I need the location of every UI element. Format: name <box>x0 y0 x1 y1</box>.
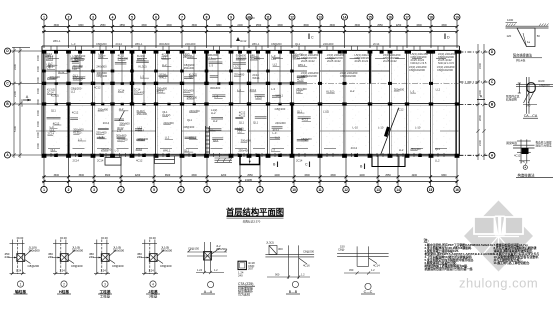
svg-text:±0.00: ±0.00 <box>60 236 67 240</box>
vertical grid walls <box>44 51 459 156</box>
svg-text:LL2: LL2 <box>162 55 167 59</box>
svg-text:250x400: 250x400 <box>183 55 194 59</box>
svg-text:C8@200: C8@200 <box>184 125 195 129</box>
svg-text:C8@200: C8@200 <box>275 107 286 111</box>
svg-text:12: 12 <box>344 188 348 192</box>
C grid dash-dot line right part <box>307 83 478 85</box>
svg-text:240: 240 <box>5 255 10 259</box>
svg-text:1.2: 1.2 <box>301 273 305 277</box>
svg-text:5: 5 <box>153 188 155 192</box>
porch 2 below bottom wall (entrance U) <box>240 156 260 165</box>
svg-text:4C12: 4C12 <box>94 85 101 89</box>
svg-text:C8@200: C8@200 <box>301 137 312 141</box>
svg-text:C8@200: C8@200 <box>71 264 83 268</box>
svg-text:QL1: QL1 <box>295 42 301 46</box>
svg-text:3300: 3300 <box>478 62 482 69</box>
svg-text:1: 1 <box>43 188 45 192</box>
svg-text:1500: 1500 <box>36 121 40 127</box>
partitions C-B band <box>56 84 280 105</box>
svg-text:250x400: 250x400 <box>96 131 107 135</box>
svg-text:2250: 2250 <box>396 24 402 27</box>
interior beam segments (density) <box>47 61 311 141</box>
svg-text:300x600: 300x600 <box>119 121 130 125</box>
svg-text:1.24: 1.24 <box>16 269 22 273</box>
svg-text:KL3(2): KL3(2) <box>326 89 334 93</box>
svg-text:zhulong.com: zhulong.com <box>459 276 538 291</box>
svg-text:L1(2): L1(2) <box>255 95 261 99</box>
svg-text:4200: 4200 <box>221 174 227 177</box>
svg-text:250x400: 250x400 <box>410 147 421 151</box>
svg-text:L1(2): L1(2) <box>234 65 240 69</box>
bottom grid bubbles <box>41 155 460 193</box>
B row beam line <box>42 104 456 106</box>
svg-text:3300: 3300 <box>166 24 172 27</box>
svg-text:C8@100/200: C8@100/200 <box>340 74 356 78</box>
section flag C bottom <box>305 162 310 168</box>
svg-text:工柱基: 工柱基 <box>99 289 110 294</box>
svg-text:14: 14 <box>343 15 347 19</box>
svg-text:L1(2): L1(2) <box>323 110 329 114</box>
svg-text:CTA (Z25): CTA (Z25) <box>238 282 253 286</box>
svg-text:L-3: L-3 <box>410 89 414 93</box>
svg-text:WKL1: WKL1 <box>252 42 260 46</box>
svg-text:共14处: 共14处 <box>516 58 525 63</box>
svg-text:240x300: 240x300 <box>96 64 107 68</box>
svg-text:2550: 2550 <box>120 24 126 27</box>
svg-text:4C20: 4C20 <box>538 79 545 83</box>
svg-text:15: 15 <box>429 188 433 192</box>
porch 1 below bottom wall <box>155 156 175 164</box>
svg-text:3600: 3600 <box>105 174 111 177</box>
svg-text:2C14: 2C14 <box>116 42 123 46</box>
lintel segments below top wall <box>49 58 446 60</box>
svg-text:250x400: 250x400 <box>238 149 249 153</box>
svg-text:3300: 3300 <box>441 24 447 27</box>
svg-text:QL1: QL1 <box>435 147 441 151</box>
plan outer walls <box>42 46 459 156</box>
svg-text:4C12: 4C12 <box>240 39 247 43</box>
svg-text:3: 3 <box>93 188 95 192</box>
svg-text:C8@100/200: C8@100/200 <box>301 74 317 78</box>
svg-text:4: 4 <box>152 282 154 286</box>
right grid bubbles <box>459 49 495 158</box>
svg-text:240x300: 240x300 <box>163 121 174 125</box>
svg-text:300x600: 300x600 <box>73 76 84 80</box>
svg-text:3300: 3300 <box>416 24 422 27</box>
svg-text:1500: 1500 <box>36 77 40 83</box>
svg-text:2: 2 <box>68 15 70 19</box>
entrance steps hatched block <box>215 158 233 162</box>
svg-text:L-3: L-3 <box>140 74 144 78</box>
interior beam line y71 <box>45 70 390 72</box>
svg-text:250x400: 250x400 <box>137 112 148 116</box>
svg-text:250x400: 250x400 <box>134 91 145 95</box>
svg-text:2550: 2550 <box>385 174 391 177</box>
stair flight 3 short <box>119 111 125 122</box>
svg-text:150: 150 <box>340 245 345 249</box>
svg-text:1a: 1a <box>527 40 531 44</box>
svg-text:2C14: 2C14 <box>48 132 55 136</box>
svg-text:H柱基: H柱基 <box>59 289 69 294</box>
svg-text:5: 5 <box>131 15 133 19</box>
svg-text:L-3: L-3 <box>72 42 76 46</box>
svg-text:C8@200: C8@200 <box>96 42 107 46</box>
svg-text:3300: 3300 <box>191 174 197 177</box>
svg-text:QL1: QL1 <box>253 121 259 125</box>
svg-text:±0.00: ±0.00 <box>17 236 24 240</box>
svg-text:300x600: 300x600 <box>210 86 221 90</box>
svg-text:4C12: 4C12 <box>297 78 304 82</box>
svg-text:10: 10 <box>292 188 296 192</box>
svg-text:C8@100: C8@100 <box>539 83 550 87</box>
svg-text:LL2: LL2 <box>119 107 124 111</box>
section CA-CA detail <box>506 77 553 118</box>
svg-text:LL2: LL2 <box>211 111 216 115</box>
svg-text:L-3: L-3 <box>99 135 103 139</box>
svg-text:WKL1: WKL1 <box>163 148 171 152</box>
svg-text:14: 14 <box>396 188 400 192</box>
svg-text:1500: 1500 <box>36 143 40 149</box>
svg-text:B—B: B—B <box>289 290 298 294</box>
svg-text:4C16: 4C16 <box>303 264 310 268</box>
svg-text:11: 11 <box>266 15 270 19</box>
fine texture speckle over plan <box>45 51 456 156</box>
svg-text:LL2: LL2 <box>399 148 404 152</box>
svg-text:L-3: L-3 <box>209 127 213 131</box>
svg-text:WKL1: WKL1 <box>276 94 284 98</box>
svg-text:3300: 3300 <box>355 24 361 27</box>
svg-text:KL3(2): KL3(2) <box>51 94 59 98</box>
svg-text:50: 50 <box>537 34 541 38</box>
svg-text:±0.00: ±0.00 <box>101 236 108 240</box>
footing detail B-B <box>265 241 314 295</box>
svg-text:N4C12 L=3.5: N4C12 L=3.5 <box>438 61 454 65</box>
svg-text:1: 1 <box>20 282 22 286</box>
left dimension lines <box>12 47 30 158</box>
section flag D top <box>445 34 450 40</box>
column joint detail right <box>506 139 553 177</box>
svg-text:3300: 3300 <box>54 24 60 27</box>
bottom dimension text <box>54 174 447 182</box>
svg-text:4200: 4200 <box>412 174 418 177</box>
svg-text:240: 240 <box>89 255 94 259</box>
svg-text:1: 1 <box>43 15 45 19</box>
svg-text:C8@200: C8@200 <box>236 56 247 60</box>
svg-text:LL2: LL2 <box>72 67 77 71</box>
beam section detail top right <box>506 18 549 63</box>
svg-text:QL1: QL1 <box>189 75 195 79</box>
svg-text:2400: 2400 <box>237 24 243 27</box>
left grid bubbles <box>5 48 43 158</box>
svg-text:JL3(2): JL3(2) <box>266 241 274 245</box>
watermark zhulong logo <box>464 201 533 272</box>
mid-bay joint blobs <box>55 82 282 105</box>
svg-text:240x300: 240x300 <box>323 42 334 46</box>
svg-text:16: 16 <box>455 188 459 192</box>
svg-text:C8@200: C8@200 <box>96 74 107 78</box>
svg-text:5100: 5100 <box>13 125 17 132</box>
svg-text:15: 15 <box>368 15 372 19</box>
svg-text:结施说明: 结施说明 <box>506 97 517 101</box>
svg-text:3: 3 <box>104 282 106 286</box>
svg-text:结构标高3.570: 结构标高3.570 <box>243 219 261 223</box>
svg-text:4200: 4200 <box>359 174 365 177</box>
svg-text:LL2: LL2 <box>165 136 170 140</box>
svg-text:LL2: LL2 <box>435 159 440 163</box>
footing detail 3 <box>89 236 124 299</box>
svg-text:QL1: QL1 <box>50 148 56 152</box>
svg-text:300x600: 300x600 <box>49 75 60 79</box>
beam labels inside plan <box>46 52 456 153</box>
stair ladder 1 <box>206 126 210 154</box>
svg-text:WKL1: WKL1 <box>53 39 61 43</box>
svg-text:±0.00: ±0.00 <box>149 236 156 240</box>
svg-text:240: 240 <box>238 274 243 278</box>
svg-text:抗震设防烈度为7度设计分组为第一组.: 抗震设防烈度为7度设计分组为第一组. <box>424 266 474 271</box>
svg-text:240: 240 <box>48 255 53 259</box>
svg-text:1.24: 1.24 <box>197 268 203 272</box>
svg-text:2C14: 2C14 <box>73 159 80 163</box>
svg-text:300x600: 300x600 <box>250 56 261 60</box>
svg-text:C8@150: C8@150 <box>188 247 200 251</box>
svg-text:L-3: L-3 <box>273 131 277 135</box>
svg-text:18: 18 <box>429 15 433 19</box>
svg-text:1500: 1500 <box>36 88 40 94</box>
svg-text:9: 9 <box>230 15 232 19</box>
svg-text:250x500: 250x500 <box>216 247 227 251</box>
left dimension text (rotated) <box>13 63 24 132</box>
svg-text:C: C <box>311 36 314 40</box>
section arrow A right <box>477 95 485 100</box>
svg-text:WKL1: WKL1 <box>252 76 260 80</box>
svg-text:2C14: 2C14 <box>103 121 110 125</box>
svg-text:WKL1: WKL1 <box>298 63 306 67</box>
svg-text:WKL1: WKL1 <box>293 55 301 59</box>
svg-text:A—A: A—A <box>204 290 213 294</box>
stair diagonal 2 <box>381 108 399 155</box>
svg-text:9: 9 <box>259 188 261 192</box>
svg-text:QL1: QL1 <box>184 148 190 152</box>
columns on top wall <box>42 50 462 54</box>
columns on bottom wall <box>42 154 460 158</box>
svg-text:1.24: 1.24 <box>60 269 66 273</box>
section flag B bottom <box>273 162 278 168</box>
top grid bubbles row <box>41 14 460 48</box>
svg-text:4C12: 4C12 <box>250 88 257 92</box>
svg-text:13: 13 <box>318 15 322 19</box>
svg-text:WKL1: WKL1 <box>135 42 143 46</box>
svg-text:J柱基: J柱基 <box>148 289 158 294</box>
svg-text:3300: 3300 <box>79 174 85 177</box>
svg-text:13: 13 <box>376 188 380 192</box>
footing detail 1 <box>5 236 40 294</box>
svg-text:11.施工时与各工种密切配合.: 11.施工时与各工种密切配合. <box>494 260 531 265</box>
svg-text:L-10: L-10 <box>353 126 359 130</box>
svg-text:3300: 3300 <box>277 24 283 27</box>
columns on C wall <box>42 82 433 85</box>
svg-text:QL1: QL1 <box>297 109 303 113</box>
svg-text:19: 19 <box>455 15 459 19</box>
svg-text:250x400: 250x400 <box>184 66 195 70</box>
svg-text:3300: 3300 <box>304 174 310 177</box>
svg-text:C8@200: C8@200 <box>137 137 148 141</box>
svg-text:轴柱基: 轴柱基 <box>15 289 26 294</box>
svg-text:LL2: LL2 <box>272 57 277 61</box>
beam-column joints on y71 <box>42 70 294 73</box>
svg-text:240: 240 <box>526 104 531 108</box>
section flag B2 bottom <box>360 164 365 170</box>
svg-text:L-3: L-3 <box>78 137 82 141</box>
svg-text:C8@100/200: C8@100/200 <box>409 68 425 72</box>
svg-text:240x300: 240x300 <box>185 42 196 46</box>
svg-text:240x300: 240x300 <box>118 57 129 61</box>
svg-text:240x300: 240x300 <box>275 121 286 125</box>
svg-text:300x600: 300x600 <box>241 139 252 143</box>
footing detail 4 <box>137 236 172 299</box>
svg-text:L-3: L-3 <box>115 149 119 153</box>
svg-text:C8@200: C8@200 <box>28 264 40 268</box>
svg-text:首层结构平面图: 首层结构平面图 <box>226 207 284 217</box>
svg-text:构造柱做法: 构造柱做法 <box>518 172 536 177</box>
svg-text:1.2: 1.2 <box>371 268 375 272</box>
svg-text:1.24: 1.24 <box>101 269 107 273</box>
svg-text:2100: 2100 <box>13 90 17 97</box>
svg-text:16: 16 <box>388 15 392 19</box>
svg-text:8: 8 <box>239 188 241 192</box>
svg-text:LL2: LL2 <box>350 89 355 93</box>
window tick marks on outer walls <box>51 46 444 157</box>
svg-text:300: 300 <box>278 247 283 251</box>
svg-text:1.2: 1.2 <box>214 268 218 272</box>
svg-text:KL3(2): KL3(2) <box>73 131 81 135</box>
svg-text:6: 6 <box>155 15 157 19</box>
svg-text:LL2: LL2 <box>71 89 76 93</box>
svg-text:1500: 1500 <box>36 99 40 105</box>
svg-text:300x500: 300x500 <box>161 248 172 252</box>
svg-text:7: 7 <box>181 15 183 19</box>
heavy shear wall strokes <box>69 51 371 156</box>
bottom dimension lines <box>42 175 459 183</box>
svg-text:均为此柱: 均为此柱 <box>238 292 250 297</box>
svg-text:4C12: 4C12 <box>53 121 60 125</box>
svg-text:4C12: 4C12 <box>157 89 164 93</box>
svg-text:240: 240 <box>521 160 526 164</box>
svg-text:1200: 1200 <box>507 18 514 22</box>
svg-text:4C12: 4C12 <box>58 70 65 74</box>
svg-text:L-3: L-3 <box>271 87 275 91</box>
svg-text:450: 450 <box>349 268 354 272</box>
drawing title <box>226 207 284 224</box>
porch 3 below bottom wall <box>372 156 405 167</box>
svg-text:120: 120 <box>507 34 512 38</box>
svg-text:QL1: QL1 <box>187 118 193 122</box>
footing detail C-C <box>337 245 389 295</box>
svg-text:2: 2 <box>63 282 65 286</box>
svg-text:2C14: 2C14 <box>296 159 303 163</box>
svg-text:240x300: 240x300 <box>187 95 198 99</box>
section arrow A left <box>23 95 31 101</box>
svg-text:C8@200: C8@200 <box>271 42 282 46</box>
svg-text:4C12: 4C12 <box>136 147 143 151</box>
svg-text:WKL1: WKL1 <box>159 76 167 80</box>
svg-text:300x500: 300x500 <box>72 248 83 252</box>
svg-text:圈梁纵筋: 圈梁纵筋 <box>506 141 517 145</box>
svg-text:2C14: 2C14 <box>138 129 145 133</box>
svg-text:3300: 3300 <box>216 24 222 27</box>
svg-text:4C12: 4C12 <box>351 146 358 150</box>
svg-text:2C25 4C22: 2C25 4C22 <box>327 59 341 63</box>
svg-text:1500: 1500 <box>36 132 40 138</box>
svg-text:L-3: L-3 <box>117 129 121 133</box>
svg-text:3: 3 <box>92 15 94 19</box>
svg-text:1500: 1500 <box>36 110 40 116</box>
svg-text:L-10: L-10 <box>378 126 384 130</box>
svg-text:300x600: 300x600 <box>394 87 405 91</box>
svg-text:LL2: LL2 <box>213 119 218 123</box>
svg-text:1500: 1500 <box>36 55 40 61</box>
svg-text:3300: 3300 <box>330 24 336 27</box>
svg-text:2C25 4C22: 2C25 4C22 <box>355 59 369 63</box>
svg-text:4C12: 4C12 <box>72 110 79 114</box>
svg-text:2550: 2550 <box>247 174 253 177</box>
svg-text:4200: 4200 <box>135 174 141 177</box>
svg-text:A: A <box>480 95 483 99</box>
labels above top wall <box>53 39 380 46</box>
svg-text:L-3: L-3 <box>271 148 275 152</box>
svg-text:6: 6 <box>180 188 182 192</box>
svg-text:4C12: 4C12 <box>514 154 521 158</box>
svg-text:3300: 3300 <box>54 174 60 177</box>
svg-text:2C14: 2C14 <box>373 42 380 46</box>
svg-text:240x300: 240x300 <box>189 109 200 113</box>
svg-text:240x300: 240x300 <box>101 147 112 151</box>
labels below bottom wall <box>73 159 440 163</box>
svg-text:J柱基: J柱基 <box>149 294 158 299</box>
svg-text:2800: 2800 <box>478 114 482 121</box>
svg-text:C8@200: C8@200 <box>112 264 124 268</box>
left bay rotated dim text <box>36 55 40 149</box>
svg-text:N4C12 L=3.5: N4C12 L=3.5 <box>411 61 427 65</box>
svg-text:QL1: QL1 <box>51 109 57 113</box>
right dimension text <box>478 62 482 146</box>
extra interior partition walls top-left band <box>56 51 280 84</box>
svg-text:240: 240 <box>137 255 142 259</box>
svg-text:7: 7 <box>206 188 208 192</box>
svg-text:2C25 4C22: 2C25 4C22 <box>383 59 397 63</box>
svg-text:QL1: QL1 <box>98 55 104 59</box>
svg-text:2C14: 2C14 <box>118 88 125 92</box>
svg-text:300x600: 300x600 <box>159 42 170 46</box>
svg-text:WKL1: WKL1 <box>189 136 197 140</box>
svg-text:WKL1: WKL1 <box>46 55 54 59</box>
notes block <box>424 237 540 271</box>
svg-text:300x600: 300x600 <box>116 134 127 138</box>
interior beam segments y131 <box>36 130 460 132</box>
svg-text:8: 8 <box>206 15 208 19</box>
window lintel segments near bottom wall <box>48 148 447 150</box>
svg-text:C—C: C—C <box>364 290 373 294</box>
svg-text:工柱基: 工柱基 <box>100 294 111 299</box>
svg-text:11: 11 <box>318 188 322 192</box>
top dimension lines <box>42 25 459 33</box>
svg-text:KL3(2): KL3(2) <box>139 65 147 69</box>
column section CTA <box>238 261 255 297</box>
svg-text:2550: 2550 <box>100 24 106 27</box>
svg-text:250x400: 250x400 <box>75 57 86 61</box>
svg-text:LL2: LL2 <box>50 128 55 132</box>
right dimension lines <box>476 44 485 160</box>
svg-text:D: D <box>447 36 450 40</box>
